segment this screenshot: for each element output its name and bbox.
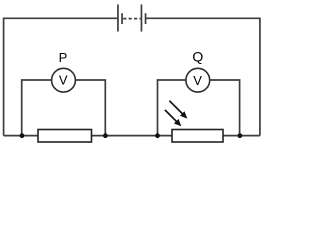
- svg-text:V: V: [193, 73, 202, 88]
- svg-text:Q: Q: [192, 49, 203, 65]
- svg-text:P: P: [59, 50, 68, 65]
- svg-text:V: V: [59, 73, 68, 88]
